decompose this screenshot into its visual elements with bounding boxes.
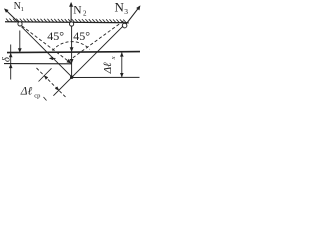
- load point P0: [70, 76, 73, 79]
- small tick lower: [44, 97, 47, 101]
- svg-text:N: N: [115, 0, 125, 14]
- svg-text:N: N: [73, 4, 82, 16]
- ring (middle attachment): [70, 22, 74, 26]
- arrowhead on left dashed at P1: [67, 59, 72, 64]
- N2 force arrow: [70, 3, 72, 22]
- 45 deg dashed angle arc: [53, 42, 90, 51]
- ceiling hatching: [6, 19, 126, 23]
- level line A (initial load level): [7, 52, 140, 53]
- svg-text:3: 3: [124, 7, 128, 16]
- svg-text:ср: ср: [34, 93, 40, 100]
- level line C (right part, through P0): [72, 76, 140, 78]
- level line B (displaced level, left part): [4, 63, 72, 65]
- small horizontal arrow at left spring crossing: [50, 57, 55, 59]
- svg-text:2: 2: [83, 9, 87, 17]
- arrowhead on right spring extension: [55, 86, 59, 90]
- delta dimension line (left): [10, 45, 12, 80]
- delta dimension arrow pointing up at line B: [9, 64, 13, 68]
- arrowhead on vertical at point P1: [70, 59, 74, 64]
- N3 force arrow: [126, 7, 139, 24]
- ceiling line: [5, 22, 129, 23]
- N1 force arrow: [5, 9, 18, 22]
- delta-l arrow down: [120, 73, 124, 77]
- delta dimension arrow pointing down at line A: [9, 53, 13, 57]
- ring (right attachment): [122, 23, 127, 28]
- left spring (initial position, 45 deg): [22, 27, 72, 77]
- delta-l dimension line (right): [121, 52, 123, 77]
- middle spring (vertical): [71, 26, 73, 76]
- delta-l arrow up: [120, 52, 124, 56]
- right spring new position (dashed): [72, 21, 124, 59]
- dashed elongation construction line (parallel to left spring): [37, 68, 68, 99]
- svg-text:45°: 45°: [47, 29, 64, 43]
- svg-text:x: x: [110, 56, 117, 60]
- projection arrow below left ring: [19, 31, 21, 52]
- left spring new position (dashed): [22, 26, 71, 64]
- svg-text:Δℓ: Δℓ: [20, 85, 33, 97]
- perpendicular tick upper: [39, 68, 52, 81]
- arrowhead on vertical at level line: [70, 47, 74, 52]
- dimension arrowhead upper (points up-left): [44, 75, 48, 79]
- right spring (initial position, 45 deg) extended below with arrow: [53, 26, 123, 96]
- svg-text:1: 1: [21, 6, 24, 13]
- svg-text:Δℓ: Δℓ: [102, 62, 114, 74]
- ring (left attachment): [18, 22, 22, 26]
- svg-text:45°: 45°: [73, 29, 90, 43]
